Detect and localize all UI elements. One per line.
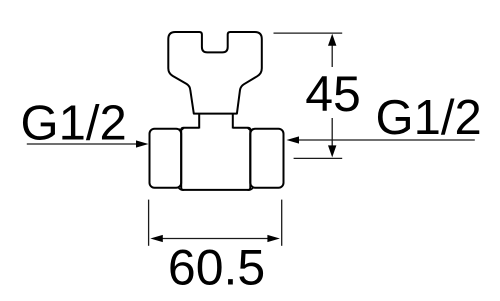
dim 45: bottom extension line xyxy=(294,157,343,159)
junction notch top-right xyxy=(248,128,254,130)
central body xyxy=(181,128,250,190)
svg-text:G1/2: G1/2 xyxy=(21,97,127,151)
dim 45: down arrowhead xyxy=(328,145,336,157)
left G1/2 leader line xyxy=(27,143,138,145)
dim 45: lower shaft xyxy=(331,118,333,152)
svg-text:G1/2: G1/2 xyxy=(376,91,482,145)
dim 45: upper shaft xyxy=(331,40,333,67)
dim 45: up arrowhead xyxy=(328,34,336,46)
left port cap xyxy=(150,129,182,188)
dim 60.5: left arrowhead xyxy=(150,235,163,242)
dim 60.5: right extension line xyxy=(281,200,283,246)
junction notch bottom-right xyxy=(248,188,254,190)
junction notch top-left xyxy=(179,128,185,130)
right G1/2 leader line xyxy=(297,139,475,141)
handle (butterfly grip) xyxy=(168,32,261,114)
stem (neck below handle) xyxy=(199,114,233,129)
svg-text:60.5: 60.5 xyxy=(168,240,265,296)
right G1/2 arrowhead xyxy=(287,136,300,143)
dim 60.5: dimension line xyxy=(160,238,271,240)
dim 60.5: left extension line xyxy=(148,200,150,246)
dim 60.5: right arrowhead xyxy=(267,235,280,242)
dim 45: top extension line xyxy=(274,32,343,34)
junction notch bottom-left xyxy=(179,188,185,190)
right port cap xyxy=(250,129,283,188)
svg-text:45: 45 xyxy=(305,66,361,122)
left G1/2 arrowhead xyxy=(136,140,149,147)
